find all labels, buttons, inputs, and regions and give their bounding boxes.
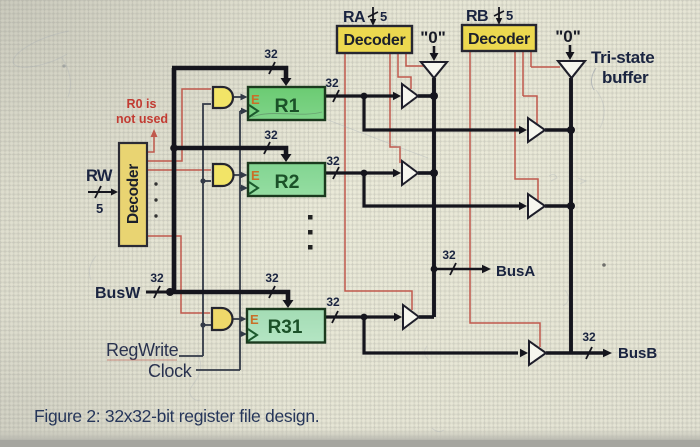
wire: RB decoder output 1 to buffer 1B enable: [523, 96, 537, 124]
wire: RegWrite rail: [203, 104, 211, 356]
faint scratch marks: [252, 112, 322, 117]
arrowhead BusB out: [603, 349, 612, 358]
svg-text:not used: not used: [116, 112, 168, 126]
wire: RB decoder output 0 to "0" tri-state enable: [531, 66, 560, 68]
slash R31 out 32: [332, 311, 338, 323]
wire: buffer 2B output: [545, 204, 571, 208]
svg-text:"0": "0": [420, 28, 446, 47]
clock chevron R2: [249, 182, 258, 194]
wire: R1 output: [325, 94, 394, 97]
svg-text:Decoder: Decoder: [344, 32, 406, 49]
junction dot R1 output: [361, 93, 368, 100]
wire: BusA output: [434, 268, 483, 271]
wire: buffer 1B output: [545, 128, 571, 132]
decoder RA (U2): [337, 26, 412, 53]
wire: buffer 1A output: [418, 94, 434, 98]
svg-text:32: 32: [325, 76, 339, 90]
svg-text:RB: RB: [466, 8, 488, 25]
squiggle underline RegWrite: [107, 359, 177, 361]
wire: RegWrite tap to AND A2: [203, 180, 211, 182]
arrowhead into buffer 31A: [394, 313, 402, 322]
paren mark near Tri-state: [591, 68, 596, 90]
decoder RB (U3): [462, 25, 536, 51]
wire: AND A1 output: [234, 96, 241, 98]
slash R2 out 32: [333, 167, 339, 179]
svg-text:Tri-state: Tri-state: [591, 48, 654, 67]
ellipsis registers: [308, 215, 313, 250]
wire: left decoder output 31 to AND gate A3: [147, 236, 210, 313]
svg-text:BusW: BusW: [95, 285, 141, 302]
wire: RA decoder output 1 to buffer 1A enable: [398, 53, 411, 89]
tri-state buffer 31B: [529, 341, 546, 365]
arrowhead into buffer 2B: [519, 202, 527, 211]
register R2: [248, 163, 325, 196]
svg-text:32: 32: [265, 271, 279, 285]
wire: RA decoder output 0 to "0" tri-state enable: [406, 53, 424, 66]
ellipsis decoder outputs: [154, 182, 157, 217]
wire: BusW row / feed to R31: [168, 292, 288, 301]
wire: R0-not-used stub from left decoder: [147, 134, 154, 152]
slash BusA 32: [450, 263, 456, 275]
svg-text:RegWrite: RegWrite: [106, 340, 179, 360]
tri-state buffer 2B: [528, 194, 545, 218]
wire: R31 output: [325, 315, 395, 318]
slash BusW 32: [154, 286, 160, 298]
junction dot RegWrite/A2: [200, 178, 205, 183]
svg-text:RW: RW: [86, 167, 113, 185]
junction dot BusB/row2: [567, 202, 575, 210]
tri-state buffer 1B: [528, 118, 545, 142]
wire: RB input arrow: [498, 7, 500, 19]
wire: clock tap R1: [240, 110, 243, 112]
svg-text:5: 5: [380, 9, 387, 24]
AND gate A3: [212, 308, 233, 330]
svg-text:buffer: buffer: [602, 68, 649, 87]
wire: R2 output: [325, 171, 394, 174]
wire: RW input arrow: [88, 191, 112, 193]
junction dot RegWrite/A3: [200, 322, 205, 327]
clock chevron R31: [248, 329, 257, 341]
svg-text:32: 32: [442, 248, 456, 262]
clock chevron R1: [249, 105, 258, 117]
decoder RW (U1, vertical): [119, 143, 147, 246]
junction dot BusW corner: [166, 288, 174, 296]
wire: BusA vertical rail: [432, 78, 436, 317]
arrowhead into R31 top: [283, 300, 294, 308]
junction dot BusW/R2 feed: [170, 144, 178, 152]
wire: top feed to R1: [172, 68, 286, 80]
wire: R31 branch to buffer 31B: [364, 317, 518, 353]
svg-text:R2: R2: [275, 171, 300, 193]
svg-text:5: 5: [506, 8, 513, 23]
svg-text:"0": "0": [555, 27, 581, 46]
register R1: [248, 87, 325, 120]
wire: RB decoder output 0 drop: [530, 51, 532, 67]
slash top feed 32: [269, 62, 275, 74]
junction dot BusA tap: [431, 266, 438, 273]
junction dot R2 output: [361, 170, 368, 177]
wire: R1 branch to buffer 1B: [364, 96, 519, 130]
arrowhead into buffer 1A: [393, 92, 401, 101]
svg-text:R0 is: R0 is: [127, 97, 157, 111]
svg-text:E: E: [250, 312, 259, 327]
slash R2 feed 32: [264, 142, 270, 154]
svg-text:Decoder: Decoder: [125, 164, 142, 224]
AND gate A1: [213, 87, 233, 108]
wire: feed to R2: [174, 148, 286, 156]
slash BusB 32: [586, 347, 592, 359]
junction dot BusA/row1: [430, 92, 438, 100]
tri-state buffer 2A: [402, 161, 418, 185]
wire: Clock label lead: [196, 369, 240, 371]
arrowhead BusA out: [482, 265, 491, 274]
arrowhead into buffer 31B: [520, 349, 528, 358]
arrowhead into R2 top: [281, 154, 292, 162]
wire: BusB vertical rail: [569, 78, 573, 353]
wire: "0" arrow into tri-state 1: [433, 46, 436, 54]
wire: BusW label lead: [146, 291, 170, 294]
wire: buffer 31A output to BusA rail: [419, 315, 434, 319]
wire: RA decoder output 31 to buffer 31A enable: [345, 53, 412, 310]
wire: RegWrite label lead: [179, 355, 203, 357]
svg-text:E: E: [251, 168, 260, 183]
svg-text:RA: RA: [343, 9, 366, 26]
svg-text:BusB: BusB: [618, 345, 657, 362]
tri-state buffer "0" B (down): [558, 61, 585, 78]
red arrowhead R0-not-used: [151, 129, 158, 137]
wire: clock tap R2: [240, 187, 243, 189]
svg-text:Figure 2: 32x32-bit register f: Figure 2: 32x32-bit register file design…: [34, 406, 319, 426]
wire: RA decoder output 2 to buffer 2A enable: [390, 53, 400, 163]
register R31: [247, 309, 325, 343]
wire: RB decoder output 0 and 1 drop: [522, 51, 524, 96]
wire: Clock rail: [239, 111, 241, 370]
svg-text:32: 32: [150, 271, 164, 285]
wire: RB decoder output 31 to buffer 31B enable: [470, 51, 540, 347]
svg-text:32: 32: [326, 295, 340, 309]
wire: left decoder output 1 to AND gate A1: [147, 89, 211, 161]
svg-text:32: 32: [264, 128, 278, 142]
wire: clock tap R31: [240, 333, 242, 335]
arrowhead into buffer 2A: [393, 169, 401, 178]
slash RW 5: [95, 186, 101, 198]
wire: BusW vertical rail: [172, 68, 177, 294]
svg-text:32: 32: [326, 154, 340, 168]
arrowheads into E inputs and clock pins: [240, 94, 249, 338]
wire: AND A2 output: [234, 174, 241, 176]
smudge marks: [13, 31, 604, 432]
wire: buffer 31B output / BusB out: [546, 351, 604, 355]
stray dot: [602, 263, 606, 267]
AND gate A2: [213, 164, 234, 186]
svg-text:R31: R31: [268, 317, 303, 338]
junction dot BusB/row1: [567, 126, 575, 134]
tri-state buffer "0" A (down): [421, 62, 447, 78]
svg-text:32: 32: [264, 47, 278, 61]
tri-state buffer 1A: [402, 84, 418, 108]
wire: AND A3 output: [233, 318, 240, 320]
svg-text:Clock: Clock: [148, 361, 193, 381]
wire: RegWrite tap to AND A3: [203, 324, 211, 326]
svg-text:5: 5: [96, 201, 103, 216]
wire: "0" arrow into tri-state 2: [569, 45, 572, 53]
svg-text:BusA: BusA: [496, 263, 535, 280]
wire: left decoder output 2 to AND gate A2: [147, 169, 211, 171]
junction dot BusA/row2: [430, 169, 438, 177]
wire: RA input arrow: [372, 7, 374, 20]
arrowhead into R1 top: [281, 78, 292, 86]
tri-state buffer 31A: [403, 305, 419, 329]
slash R1 out 32: [333, 90, 339, 102]
wire: buffer 2A output: [418, 171, 434, 175]
wire: R2 branch to buffer 2B: [364, 173, 519, 206]
arrowhead into buffer 1B: [519, 126, 527, 135]
svg-text:32: 32: [582, 330, 596, 344]
slash R31 feed 32: [269, 286, 275, 298]
svg-text:Decoder: Decoder: [468, 31, 530, 48]
svg-text:E: E: [251, 92, 260, 107]
junction dot R31 output: [361, 314, 368, 321]
wire: RB decoder output 2 to buffer 2B enable: [515, 51, 538, 200]
